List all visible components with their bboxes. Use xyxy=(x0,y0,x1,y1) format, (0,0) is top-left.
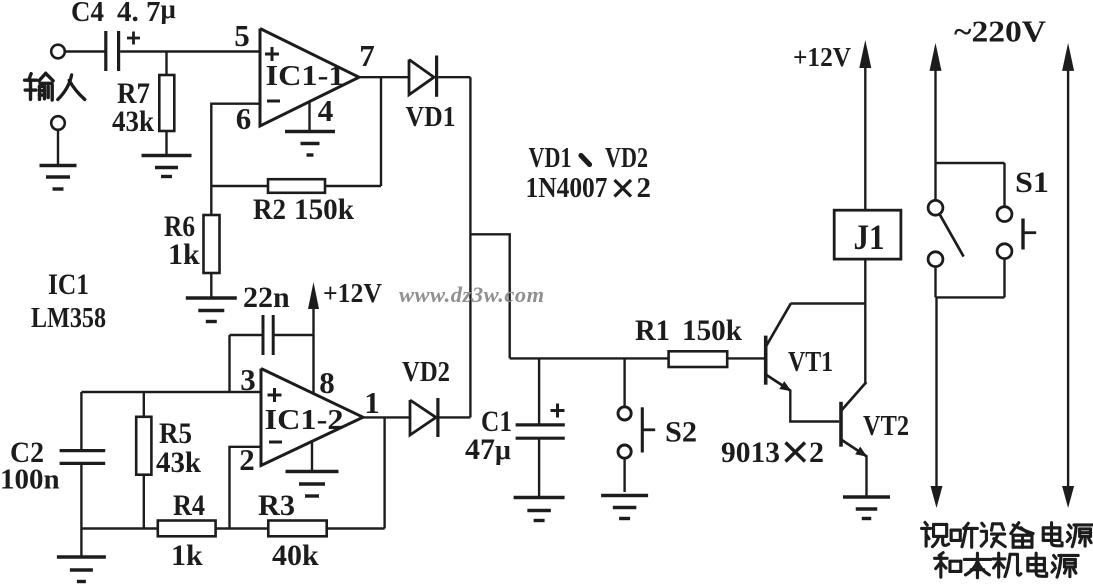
wire xyxy=(623,458,625,492)
svg-text:4: 4 xyxy=(318,93,334,128)
wire xyxy=(228,335,230,392)
input terminal bottom xyxy=(51,116,65,130)
power +12V arrow J1 xyxy=(859,40,871,210)
diode VD2 xyxy=(410,398,438,437)
transistor Q1 VT1 xyxy=(766,304,792,392)
wire C1 stem xyxy=(538,358,540,425)
svg-text:8: 8 xyxy=(319,365,335,400)
svg-text:~220V: ~220V xyxy=(954,14,1047,49)
ground xyxy=(514,498,565,521)
switch S2 xyxy=(618,407,655,458)
transistor Q2 VT2 xyxy=(841,382,867,457)
wire node rail xyxy=(510,357,669,359)
wire pin2 xyxy=(230,447,262,529)
IC1-1 - input mark xyxy=(267,100,280,103)
svg-text:S2: S2 xyxy=(665,416,697,449)
wire VT1 collector xyxy=(791,302,867,304)
svg-text:43k: 43k xyxy=(112,105,154,138)
svg-text:VT2: VT2 xyxy=(863,411,909,442)
svg-text:1: 1 xyxy=(364,385,380,420)
svg-text:+12V: +12V xyxy=(793,42,851,72)
wire output pin1 xyxy=(363,416,410,418)
wire xyxy=(538,438,540,496)
svg-text:2: 2 xyxy=(637,172,652,204)
wire feedback R3 to pin1 xyxy=(383,417,385,528)
resistor R5 xyxy=(136,417,151,475)
svg-text:1N4007: 1N4007 xyxy=(526,172,608,204)
wire VT1 emitter to VT2 base xyxy=(790,390,839,422)
wire VT2 emitter xyxy=(865,456,867,496)
resistor R4 xyxy=(158,521,216,537)
IC1-2 + input mark xyxy=(268,394,282,397)
wire VD1-VD2 junction rail xyxy=(469,77,471,417)
wire xyxy=(727,357,764,359)
wire xyxy=(80,465,82,529)
wire ground stem IC1-2 xyxy=(311,441,313,470)
wire xyxy=(438,76,470,78)
relay J1 xyxy=(834,210,901,259)
wire xyxy=(57,130,59,164)
svg-text:R3: R3 xyxy=(258,489,295,522)
svg-text:7: 7 xyxy=(359,38,375,73)
diode VD1 xyxy=(409,56,437,97)
C1 polarity + xyxy=(551,409,565,412)
ground xyxy=(57,557,106,582)
svg-text:5: 5 xyxy=(234,18,250,53)
wire output pin7 xyxy=(359,76,409,78)
capacitor 22n xyxy=(262,315,265,355)
switch S1 xyxy=(928,200,1036,266)
wire xyxy=(1003,259,1005,298)
svg-text:22n: 22n xyxy=(243,281,290,314)
ground xyxy=(843,497,890,519)
wire xyxy=(65,50,105,52)
power line left arrow xyxy=(930,43,942,163)
wire S2 stem xyxy=(623,358,625,407)
input terminal top xyxy=(51,45,65,59)
svg-text:VT1: VT1 xyxy=(788,347,833,378)
svg-text:6: 6 xyxy=(236,101,252,136)
wire xyxy=(934,267,936,298)
resistor R2 xyxy=(268,179,325,193)
svg-text:43k: 43k xyxy=(156,446,201,479)
power line right xyxy=(1062,43,1074,508)
svg-text:VD2: VD2 xyxy=(402,357,450,388)
svg-text:VD2: VD2 xyxy=(605,142,648,174)
svg-text:J1: J1 xyxy=(854,217,885,257)
wire xyxy=(210,273,212,297)
svg-text:2: 2 xyxy=(809,436,824,469)
wire R5 top xyxy=(143,392,145,417)
svg-text:150k: 150k xyxy=(682,314,742,347)
wire xyxy=(230,334,262,336)
wire to load left xyxy=(931,297,943,508)
ground xyxy=(142,156,192,177)
svg-text:S1: S1 xyxy=(1015,166,1049,199)
resistor R3 xyxy=(268,521,326,537)
wire bottom rail xyxy=(81,527,157,529)
resistor R6 xyxy=(204,215,220,273)
wire xyxy=(216,527,269,529)
ground xyxy=(285,132,335,156)
wire pin6 feedback xyxy=(211,104,260,186)
wire S1 top rail xyxy=(936,162,1005,164)
C4 polarity + xyxy=(127,37,140,40)
power +12V arrow xyxy=(308,282,319,395)
ground xyxy=(40,166,77,190)
resistor R1 xyxy=(669,351,728,367)
IC1-2 - input mark xyxy=(269,441,282,444)
wire xyxy=(325,185,381,187)
capacitor C1 xyxy=(516,423,565,426)
wire xyxy=(165,131,167,154)
svg-text:IC1-2: IC1-2 xyxy=(265,405,344,436)
svg-text:47μ: 47μ xyxy=(465,433,511,466)
capacitor C2 xyxy=(60,449,106,452)
svg-text:www.dz3w.com: www.dz3w.com xyxy=(399,282,545,307)
svg-text:R1: R1 xyxy=(635,314,670,347)
svg-text:100n: 100n xyxy=(0,464,60,496)
svg-text:9013: 9013 xyxy=(721,436,780,469)
resistor R7 xyxy=(159,75,174,131)
op-amp U2 IC1-2 xyxy=(261,369,363,466)
wire branch xyxy=(470,234,509,358)
wire xyxy=(211,185,268,187)
svg-text:C4: C4 xyxy=(71,0,104,28)
svg-text:40k: 40k xyxy=(272,539,319,572)
wire xyxy=(143,475,145,529)
wire pin4 xyxy=(308,102,310,130)
wire xyxy=(274,334,313,336)
wire xyxy=(120,50,260,52)
wire xyxy=(934,163,936,201)
label VD1 VD2 xyxy=(529,142,649,174)
svg-text:LM358: LM358 xyxy=(31,303,106,334)
wire R7 tap xyxy=(165,52,167,76)
wire J1 to collectors xyxy=(864,259,866,382)
svg-text:150k: 150k xyxy=(294,193,354,226)
svg-text:IC1-1: IC1-1 xyxy=(266,61,345,92)
wire feedback to output xyxy=(380,77,382,186)
IC1-1 + input mark xyxy=(265,53,279,56)
svg-text:VD1: VD1 xyxy=(529,142,572,174)
wire pin3 node xyxy=(81,391,261,393)
wire xyxy=(1003,163,1005,207)
svg-text:4. 7μ: 4. 7μ xyxy=(117,0,176,28)
capacitor C4 xyxy=(104,31,107,71)
svg-text:+12V: +12V xyxy=(323,278,382,308)
svg-text:R2: R2 xyxy=(253,193,286,226)
ground xyxy=(186,298,237,322)
label shuru (input) xyxy=(25,73,85,100)
wire xyxy=(80,529,82,556)
label he benji dianyuan (and local power) xyxy=(935,553,1079,578)
wire R6 top xyxy=(210,186,212,215)
svg-text:R4: R4 xyxy=(173,489,205,522)
svg-text:1k: 1k xyxy=(168,238,200,271)
wire C2 stem xyxy=(80,392,82,449)
wire xyxy=(440,416,471,418)
svg-text:1k: 1k xyxy=(171,539,203,572)
label shiting shebei dianyuan (AV equipment power) xyxy=(922,522,1093,547)
ground xyxy=(286,472,339,497)
wire xyxy=(327,527,385,529)
op-amp U1 IC1-1 xyxy=(260,29,359,127)
svg-text:IC1: IC1 xyxy=(48,268,89,301)
wire S1 bottom rail xyxy=(936,296,1005,298)
svg-text:VD1: VD1 xyxy=(406,102,456,133)
ground xyxy=(601,496,648,519)
